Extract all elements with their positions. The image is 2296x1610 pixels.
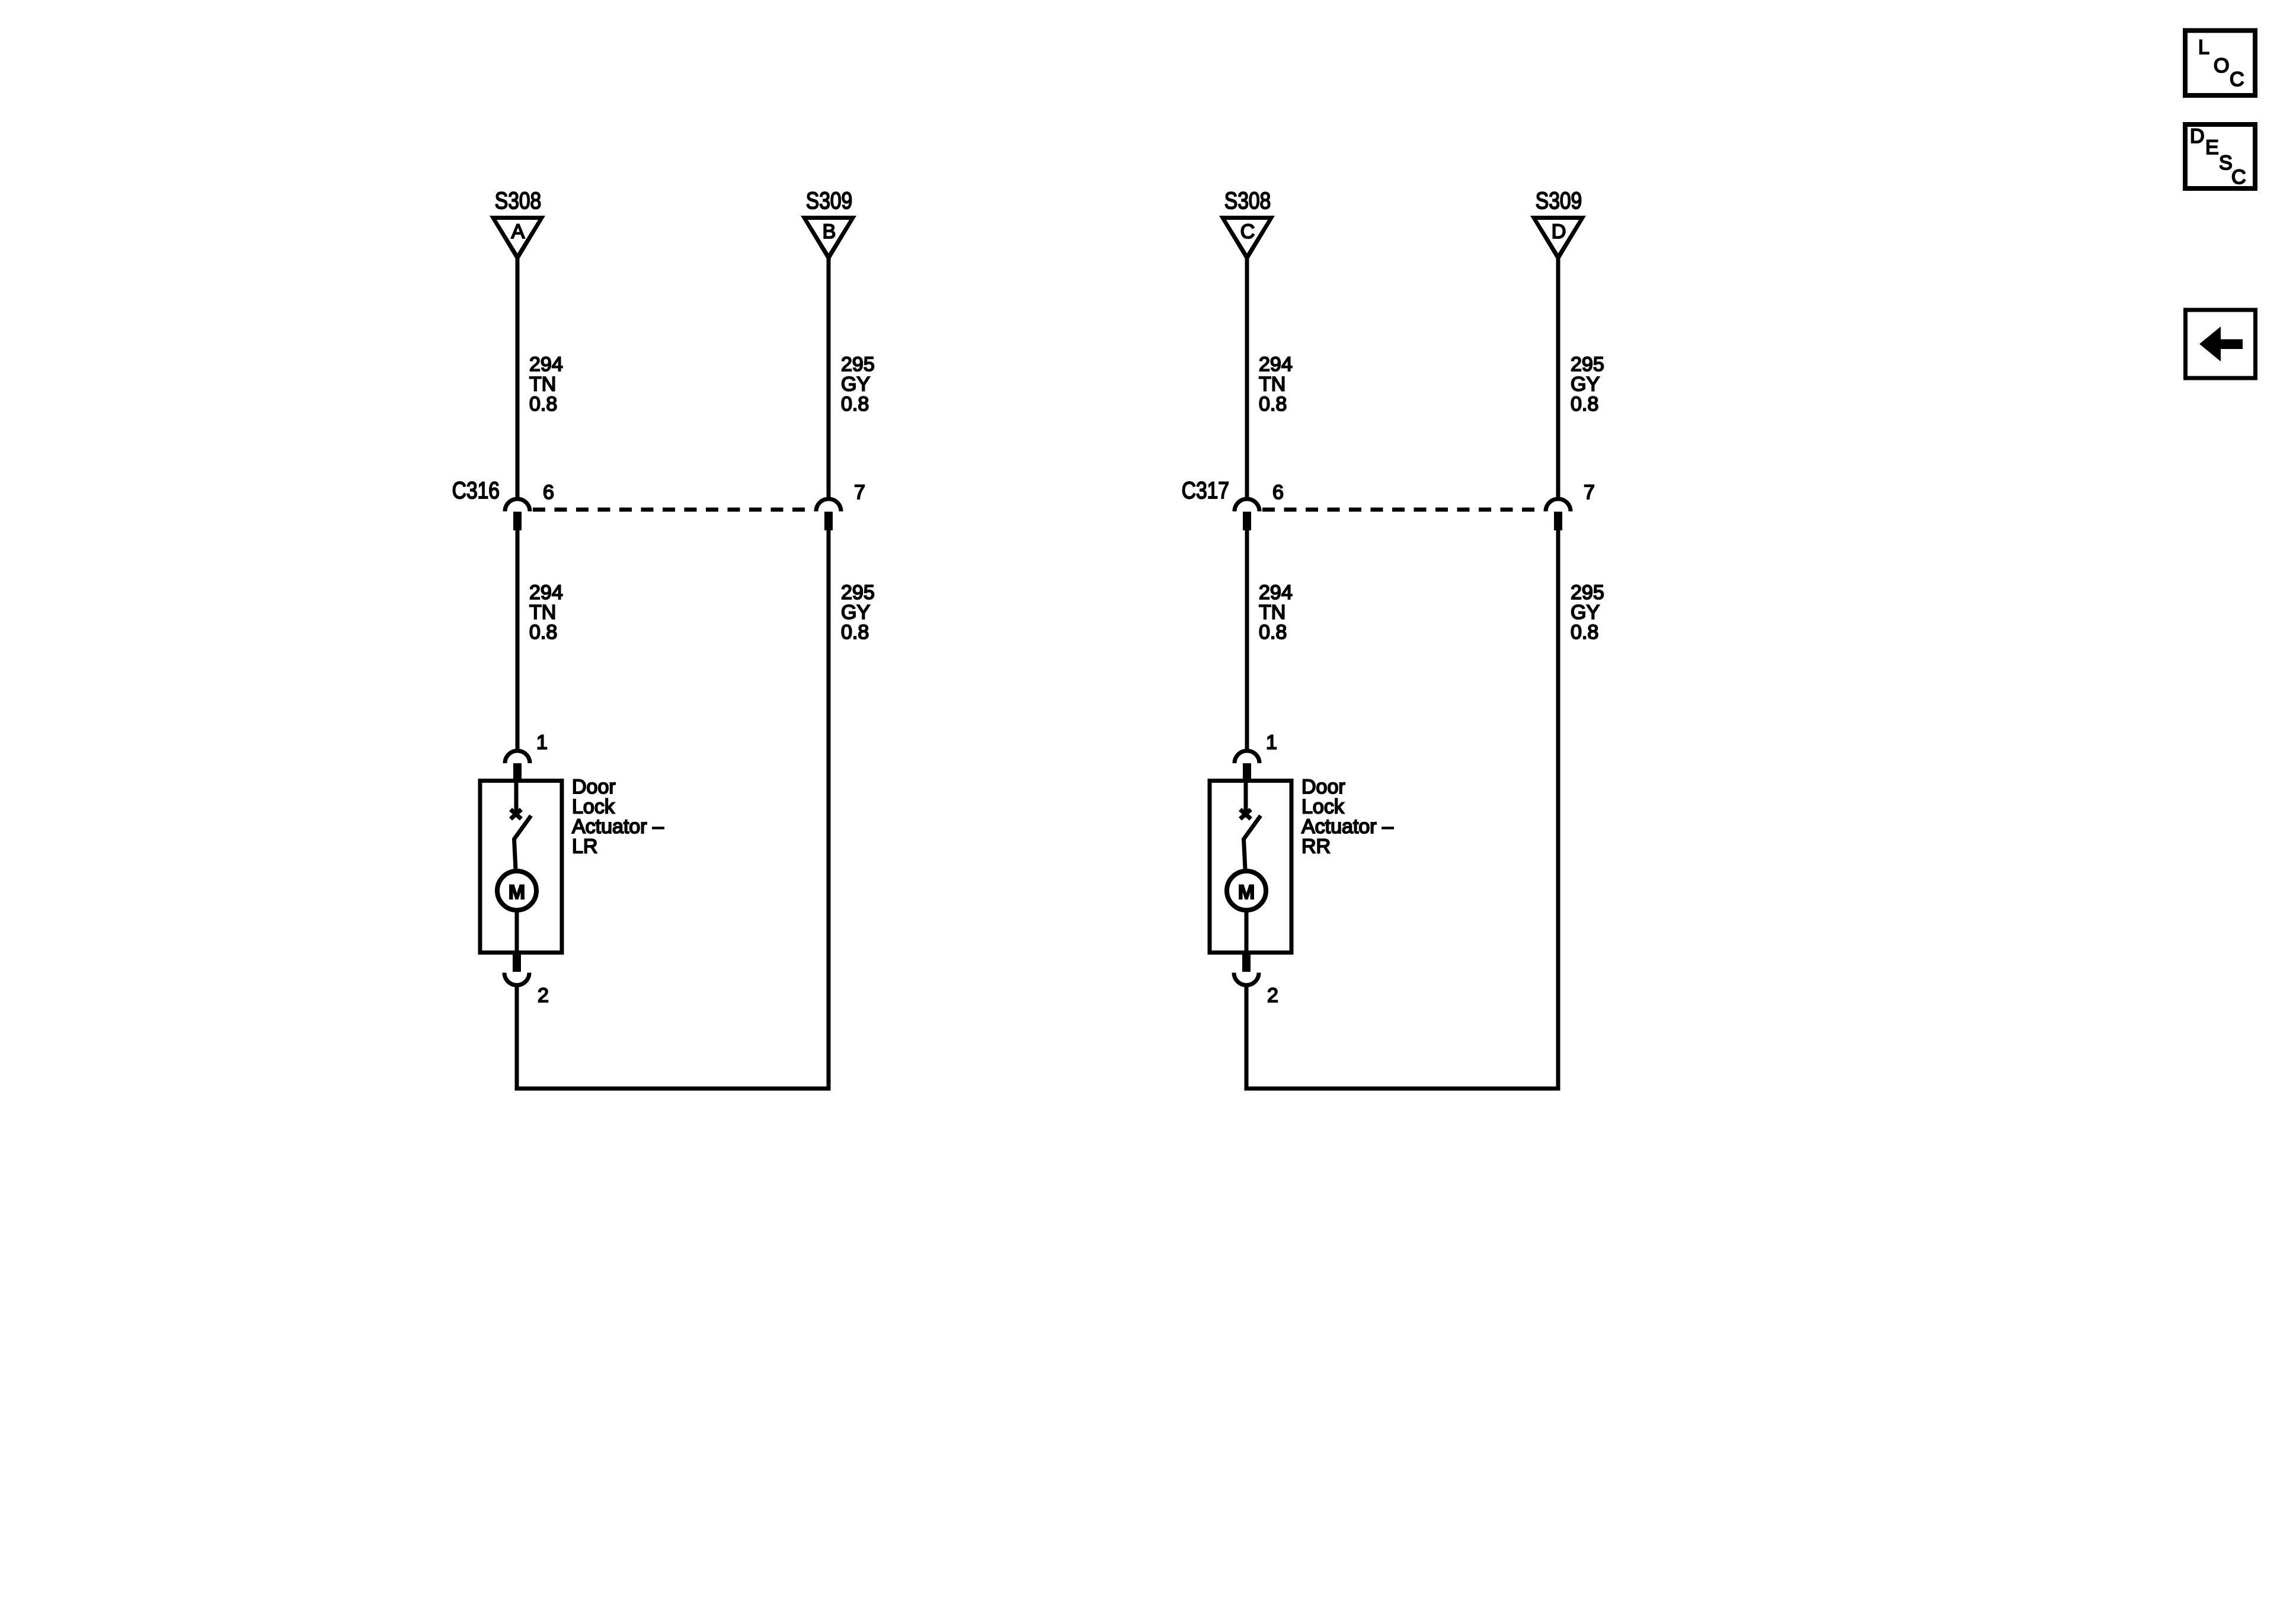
svg-text:0.8: 0.8 [1571, 393, 1598, 415]
actuator LR pin 2 terminal [513, 955, 521, 972]
svg-text:TN: TN [529, 373, 556, 396]
svg-text:LR: LR [572, 836, 597, 858]
svg-text:TN: TN [529, 601, 556, 624]
svg-text:S309: S309 [1536, 187, 1582, 213]
C317 pin 7 connector arc [1546, 499, 1571, 511]
C316 pin 7 connector arc [816, 499, 841, 511]
C316 pin 7 terminal [824, 512, 833, 531]
actuator RR internal wire motor to pin 2 [1245, 910, 1249, 955]
splice S309 triangle symbol B [801, 216, 856, 262]
C317 dashed connector tie line [1262, 508, 1544, 512]
wire 294 TN lower segment (C) [1245, 530, 1249, 750]
svg-text:294: 294 [529, 581, 563, 604]
C317 pin 7 terminal [1554, 512, 1562, 531]
svg-text:294: 294 [1259, 581, 1293, 604]
svg-text:295: 295 [841, 353, 875, 376]
svg-text:GY: GY [1571, 601, 1600, 624]
svg-text:C: C [1240, 220, 1255, 243]
svg-text:M: M [1238, 881, 1255, 904]
C316 pin 6 connector arc [505, 499, 530, 511]
actuator LR switch blade [514, 816, 532, 870]
svg-text:6: 6 [543, 481, 554, 504]
svg-text:295: 295 [1571, 353, 1604, 376]
svg-text:Door: Door [1302, 776, 1345, 798]
actuator LR pin 2 connector arc [504, 973, 529, 985]
actuator LR internal wire motor to pin 2 [515, 910, 519, 955]
return wire pin 2 to B wire (left circuit) [517, 530, 829, 1089]
svg-text:M: M [509, 881, 525, 904]
back arrow icon [2199, 327, 2243, 361]
splice S309 label (left circuit) [806, 187, 852, 213]
svg-text:Lock: Lock [572, 796, 615, 818]
actuator RR pin 1 connector arc [1235, 751, 1259, 763]
svg-text:A: A [511, 220, 525, 243]
svg-text:S309: S309 [806, 187, 852, 213]
actuator RR pin 1 terminal [1243, 763, 1251, 779]
svg-text:E: E [2205, 136, 2219, 159]
connector C316 label [452, 477, 500, 503]
svg-text:C: C [2231, 166, 2246, 188]
svg-text:295: 295 [1571, 581, 1604, 604]
svg-text:0.8: 0.8 [1571, 621, 1598, 644]
wire 295 GY upper segment (B) [827, 258, 831, 499]
svg-text:7: 7 [854, 481, 865, 504]
svg-text:Lock: Lock [1302, 796, 1345, 818]
back arrow button box [2186, 310, 2256, 378]
svg-text:2: 2 [1267, 984, 1278, 1007]
svg-text:TN: TN [1259, 373, 1285, 396]
svg-text:S: S [2219, 152, 2233, 174]
DESC button box [2185, 124, 2255, 188]
actuator LR pin 1 connector arc [505, 751, 530, 763]
actuator RR switch fixed contact X [1240, 809, 1251, 819]
svg-text:GY: GY [841, 373, 870, 396]
svg-text:0.8: 0.8 [1259, 621, 1287, 644]
svg-text:GY: GY [1571, 373, 1600, 396]
svg-text:294: 294 [529, 353, 563, 376]
svg-text:S308: S308 [1224, 187, 1271, 213]
svg-text:0.8: 0.8 [841, 393, 869, 415]
svg-text:Actuator –: Actuator – [572, 815, 664, 838]
wire 294 TN upper segment (A) [516, 258, 520, 499]
wire 294 TN lower segment (A) [516, 530, 520, 750]
svg-text:1: 1 [1266, 731, 1277, 754]
motor M circle (LR) [497, 871, 536, 910]
svg-text:C316: C316 [452, 477, 500, 503]
splice S309 label (right circuit) [1536, 187, 1582, 213]
splice S308 triangle symbol A [490, 216, 545, 262]
svg-text:L: L [2198, 36, 2209, 59]
actuator LR internal wire from pin 1 [514, 781, 519, 812]
splice S308 label (right circuit) [1224, 187, 1271, 213]
splice S308 triangle symbol C [1219, 216, 1275, 262]
svg-text:C317: C317 [1182, 477, 1229, 503]
actuator RR switch blade [1244, 816, 1261, 870]
svg-text:0.8: 0.8 [1259, 393, 1287, 415]
svg-text:Door: Door [572, 776, 616, 798]
wire 294 TN upper segment (C) [1245, 258, 1249, 499]
actuator RR pin 2 connector arc [1234, 973, 1259, 985]
svg-text:295: 295 [841, 581, 875, 604]
return wire pin 2 to D wire (right circuit) [1246, 530, 1558, 1089]
actuator RR pin 2 terminal [1242, 955, 1251, 972]
splice S308 label (left circuit) [495, 187, 541, 213]
door lock actuator RR outline box [1210, 781, 1291, 953]
svg-text:294: 294 [1259, 353, 1293, 376]
svg-text:S308: S308 [495, 187, 541, 213]
splice S309 triangle symbol D [1530, 216, 1586, 262]
LOC button box [2185, 31, 2255, 96]
svg-text:RR: RR [1302, 836, 1331, 858]
svg-text:D: D [1552, 220, 1566, 243]
svg-text:D: D [2190, 125, 2205, 148]
C316 dashed connector tie line [533, 508, 814, 512]
svg-text:6: 6 [1272, 481, 1284, 504]
actuator LR switch fixed contact X [511, 809, 522, 819]
actuator RR internal wire from pin 1 [1244, 781, 1248, 812]
C317 pin 6 connector arc [1235, 499, 1259, 511]
C317 pin 6 terminal [1243, 512, 1251, 531]
svg-text:B: B [823, 220, 836, 243]
actuator LR pin 1 terminal [513, 763, 522, 779]
svg-text:0.8: 0.8 [841, 621, 869, 644]
svg-text:C: C [2230, 68, 2244, 91]
svg-text:0.8: 0.8 [529, 393, 557, 415]
svg-text:1: 1 [536, 731, 548, 754]
svg-text:0.8: 0.8 [529, 621, 557, 644]
svg-text:O: O [2214, 55, 2229, 77]
wire 295 GY upper segment (D) [1556, 258, 1560, 499]
C316 pin 6 terminal [513, 512, 522, 531]
motor M circle (RR) [1227, 871, 1266, 910]
door lock actuator LR outline box [480, 781, 562, 953]
svg-text:GY: GY [841, 601, 870, 624]
svg-text:TN: TN [1259, 601, 1285, 624]
svg-text:7: 7 [1584, 481, 1595, 504]
svg-text:2: 2 [538, 984, 549, 1007]
connector C317 label [1182, 477, 1229, 503]
svg-text:Actuator –: Actuator – [1302, 815, 1393, 838]
